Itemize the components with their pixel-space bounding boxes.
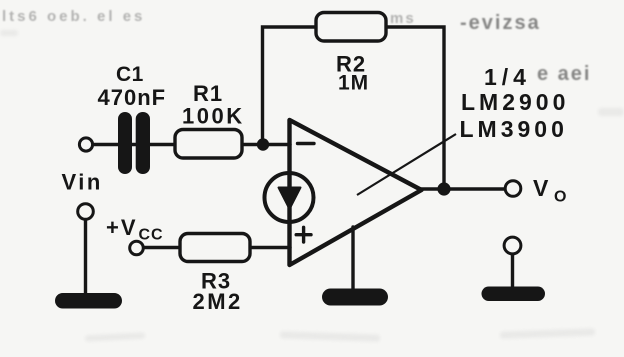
svg-text:-evizsa: -evizsa	[460, 12, 541, 34]
svg-text:100K: 100K	[182, 104, 245, 129]
svg-text:R1: R1	[193, 81, 223, 106]
svg-text:e aei: e aei	[537, 63, 591, 85]
svg-text:2M2: 2M2	[193, 289, 243, 314]
svg-text:O: O	[554, 189, 566, 206]
svg-text:LM2900: LM2900	[461, 89, 569, 115]
svg-text:LM3900: LM3900	[460, 116, 568, 142]
svg-text:ms: ms	[390, 10, 416, 27]
svg-text:CC: CC	[139, 227, 164, 244]
svg-text:V: V	[533, 175, 549, 201]
svg-text:+V: +V	[106, 215, 138, 240]
svg-text:C1: C1	[116, 63, 144, 86]
svg-text:470nF: 470nF	[98, 85, 167, 110]
svg-text:lts6 oeb. el es: lts6 oeb. el es	[2, 8, 145, 25]
svg-text:1M: 1M	[338, 72, 369, 95]
svg-text:Vin: Vin	[62, 170, 103, 195]
svg-text:1/4: 1/4	[484, 64, 531, 90]
